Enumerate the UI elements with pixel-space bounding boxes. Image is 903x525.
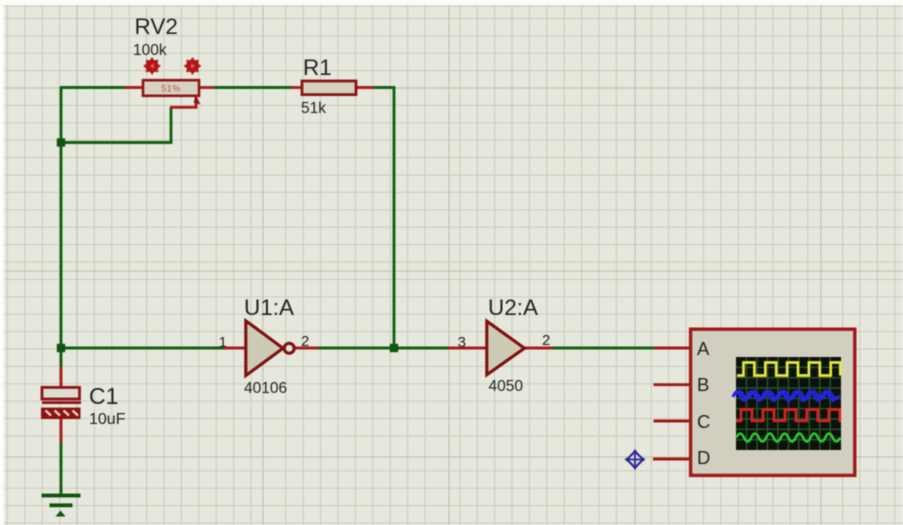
wire left vertical xyxy=(60,86,63,348)
oscilloscope pin D xyxy=(653,458,689,461)
svg-text:A: A xyxy=(697,338,710,359)
oscilloscope screen xyxy=(736,357,841,450)
buffer gate U2:A 4050 xyxy=(448,321,553,375)
oscilloscope pin B xyxy=(654,383,690,386)
wire C1 bottom to ground xyxy=(60,443,63,494)
svg-text:B: B xyxy=(697,374,709,395)
ground xyxy=(42,494,81,517)
svg-text:U1:A: U1:A xyxy=(244,295,294,320)
oscilloscope trace channel A yellow square wave xyxy=(737,363,840,376)
oscilloscope trace channel B blue wave xyxy=(733,391,840,401)
svg-text:100k: 100k xyxy=(133,42,167,59)
node marker pin D xyxy=(625,449,646,470)
node junction R1 main xyxy=(390,344,398,352)
resistor R1 xyxy=(291,81,374,95)
RV2 thumbwheel decrement button xyxy=(144,58,160,74)
oscilloscope trace channel C red square wave xyxy=(736,410,841,421)
RV2 thumbwheel increment button xyxy=(184,58,200,74)
wire pot right to R1 xyxy=(214,86,291,89)
svg-text:51k: 51k xyxy=(301,100,326,117)
capacitor C1 xyxy=(41,367,81,443)
wire R1 right and down xyxy=(374,88,394,349)
wire U2 out to scope xyxy=(553,347,654,350)
svg-text:U2:A: U2:A xyxy=(488,295,538,320)
wire main horizontal to U1 xyxy=(61,347,224,350)
svg-text:D: D xyxy=(697,447,710,468)
svg-text:3: 3 xyxy=(458,334,466,351)
oscilloscope pin A xyxy=(654,347,689,350)
svg-text:1: 1 xyxy=(219,334,227,351)
wire wiper to left vertical xyxy=(61,107,171,142)
oscilloscope pin C xyxy=(654,420,690,423)
node junction left main xyxy=(57,344,65,352)
svg-text:2: 2 xyxy=(542,332,550,349)
potentiometer RV2 xyxy=(125,80,214,107)
svg-text:2: 2 xyxy=(301,333,309,350)
svg-text:RV2: RV2 xyxy=(135,14,178,39)
oscilloscope trace channel D green sine wave xyxy=(737,434,841,442)
node junction left wiper xyxy=(57,138,65,146)
svg-text:4050: 4050 xyxy=(489,378,524,395)
wire U1 out to U2 xyxy=(318,347,448,350)
oscilloscope instrument xyxy=(691,329,855,475)
svg-text:10uF: 10uF xyxy=(89,411,126,428)
wire top-left horizontal xyxy=(61,86,125,89)
wire C1 top xyxy=(60,348,63,367)
inverter gate U1:A 40106 xyxy=(224,321,318,376)
svg-text:C1: C1 xyxy=(89,383,118,409)
svg-text:51%: 51% xyxy=(161,84,180,94)
svg-text:R1: R1 xyxy=(303,55,332,80)
svg-text:C: C xyxy=(697,411,710,432)
svg-text:40106: 40106 xyxy=(244,380,287,397)
